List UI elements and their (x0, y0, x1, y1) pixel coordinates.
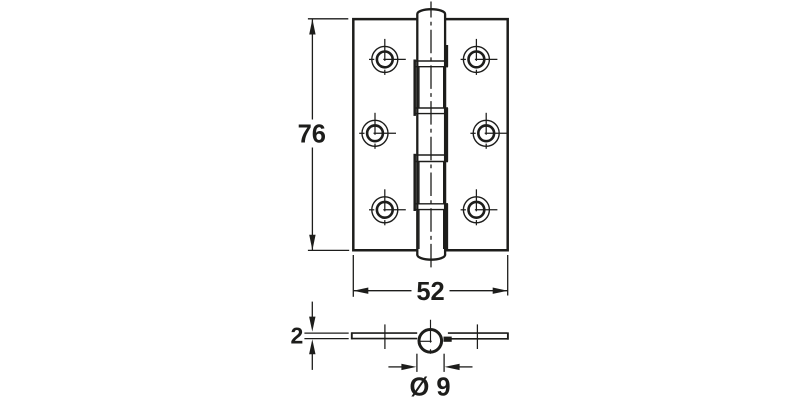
knuckle left wrap edges (413, 60, 416, 212)
dimension dia9 arrows (388, 366, 472, 368)
side view circle horizontal centerline (419, 340, 432, 342)
side view left plate (351, 333, 417, 339)
screw hole top-right (461, 39, 498, 75)
screw hole bottom-left (369, 189, 406, 225)
pin centerline (430, 2, 432, 268)
dimension 52 extension lines (353, 255, 507, 297)
side view left plate end cap (351, 332, 353, 339)
hinge left leaf (353, 19, 416, 250)
dimension 76 line (311, 19, 313, 251)
dimension 2 extension lines (304, 333, 348, 339)
dimension 52 line (353, 290, 507, 292)
hinge right leaf (446, 19, 508, 250)
side view leaf curl step (444, 337, 452, 342)
screw hole mid-left (359, 113, 396, 149)
svg-text:76: 76 (298, 121, 326, 149)
side view right plate (445, 332, 508, 339)
dimension 52 arrowheads (353, 288, 507, 294)
side view knuckle circle (419, 330, 442, 353)
dimension 76 extension lines (308, 19, 349, 251)
svg-text:52: 52 (416, 278, 444, 306)
knuckle inner thin lines (419, 67, 444, 249)
side view screw hole tick right (476, 324, 478, 349)
knuckle joint lines (414, 61, 448, 210)
knuckle right wrap edges (446, 45, 449, 250)
screw hole mid-right (470, 113, 507, 149)
dimension dia9 extension lines (417, 354, 444, 372)
side view circle vertical centerline (430, 320, 432, 354)
side view screw hole tick left (384, 324, 386, 349)
screw hole bottom-right (461, 189, 498, 225)
svg-text:2: 2 (291, 322, 304, 348)
dimension 76 arrowheads (309, 19, 315, 250)
svg-text:Ø 9: Ø 9 (409, 373, 450, 400)
screw hole top-left (369, 39, 406, 75)
knuckle tube (417, 9, 445, 260)
dimension 2 arrows (311, 302, 313, 370)
